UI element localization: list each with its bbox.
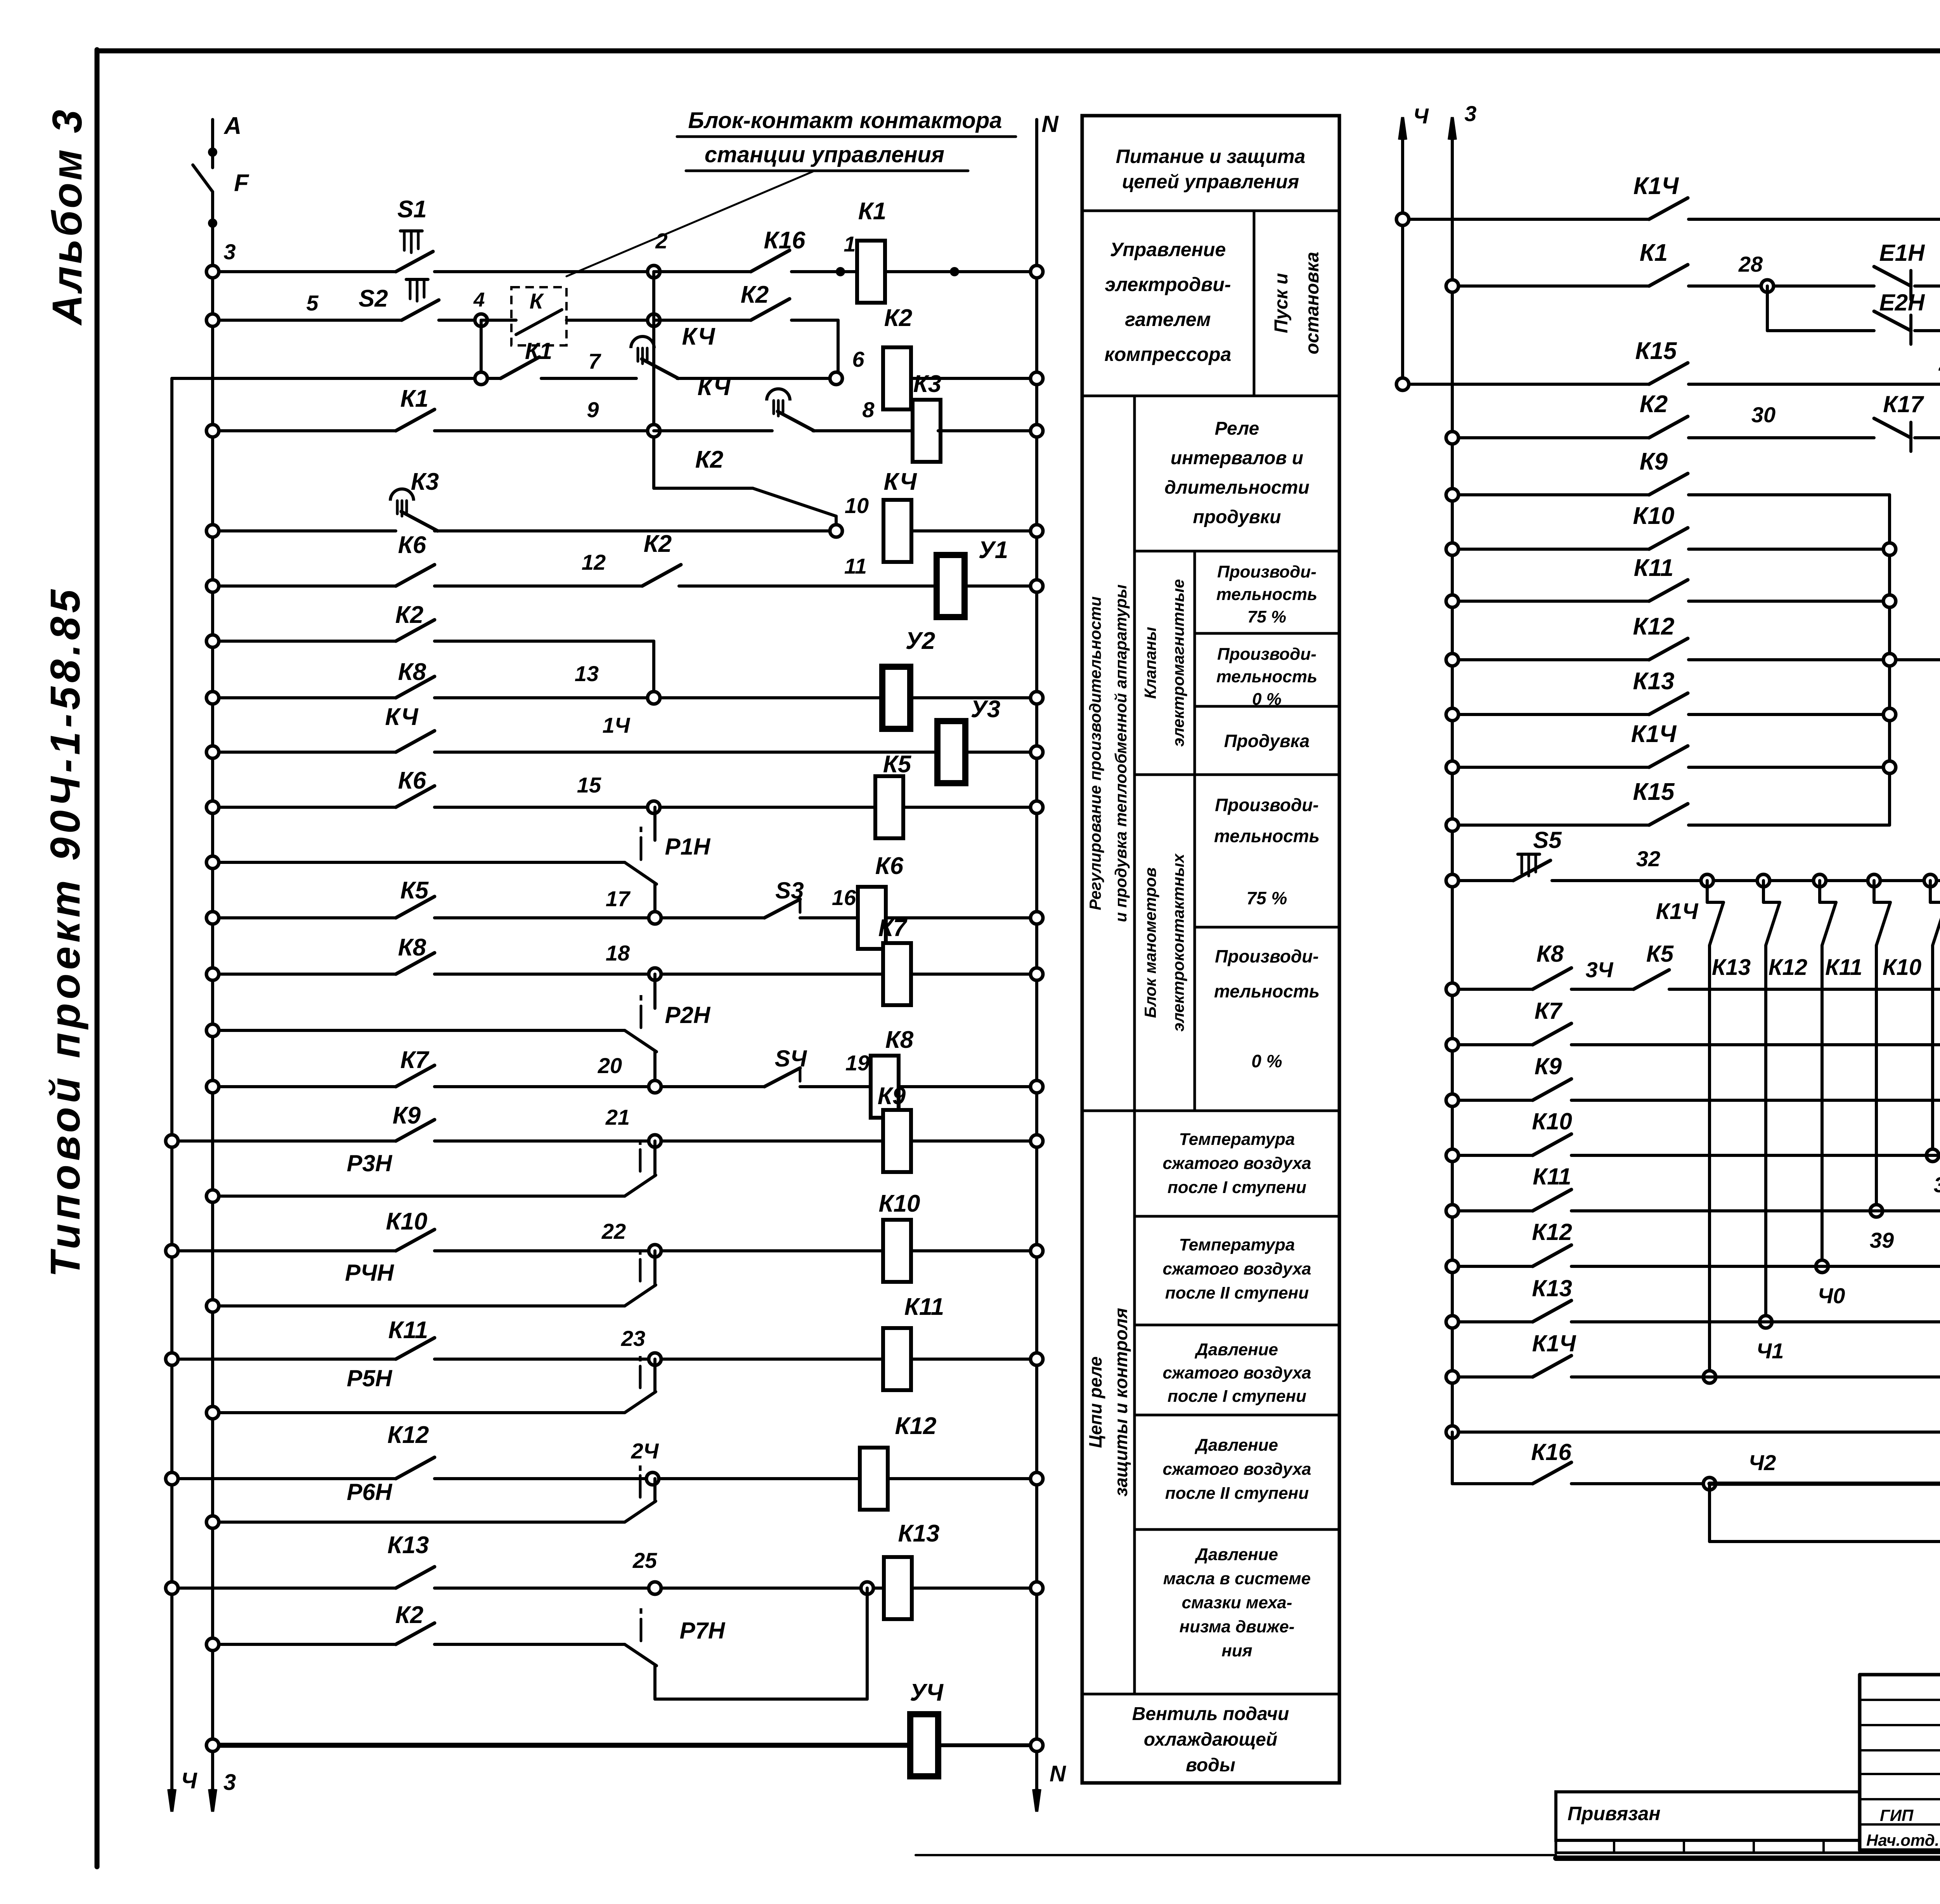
wire Y2 to bus N <box>910 696 1031 699</box>
wire K3 coil to bus N <box>938 429 1031 432</box>
contact К7 rung 35 <box>1533 1023 1571 1045</box>
node on bus 3r K14g <box>1446 761 1458 773</box>
svg-text:S5: S5 <box>1533 827 1562 853</box>
wire rung 21 P5H <box>213 1411 625 1414</box>
svg-text:масла в системе: масла в системе <box>1163 1569 1311 1588</box>
wire test branch 4 upper <box>1872 881 1876 902</box>
node test branch 1 join <box>1703 1371 1716 1383</box>
node on bus 3 rung 26 <box>206 1739 219 1751</box>
contact K10 rung 18 <box>396 1229 435 1251</box>
node bus N rung 24 <box>1031 1582 1043 1594</box>
wire branch to contact K2 <box>654 487 753 490</box>
svg-text:Ч: Ч <box>1413 104 1429 128</box>
svg-text:S2: S2 <box>359 285 388 312</box>
svg-text:4: 4 <box>473 289 485 311</box>
svg-text:К11: К11 <box>1634 555 1673 581</box>
wire test branch 5 lower <box>1931 945 1934 1155</box>
wire P7H loop <box>653 1666 656 1699</box>
svg-text:К8: К8 <box>398 659 426 685</box>
svg-text:смазки меха-: смазки меха- <box>1182 1593 1292 1612</box>
node 6 <box>830 372 842 385</box>
break contact K17 <box>1874 418 1911 438</box>
svg-text:Управление: Управление <box>1110 239 1226 260</box>
contact K15 group <box>1649 804 1688 825</box>
junction node test branch 2 <box>1757 874 1770 887</box>
svg-text:16: 16 <box>832 885 856 910</box>
svg-text:Е2Н: Е2Н <box>1879 290 1925 316</box>
svg-text:39: 39 <box>1870 1228 1894 1252</box>
contact K8 rung 8 <box>396 676 435 698</box>
test lamp contact 4 <box>1876 902 1890 945</box>
svg-text:Вентиль подачи: Вентиль подачи <box>1132 1704 1289 1724</box>
wire rung 39 <box>1452 1265 1533 1268</box>
wire rung K13 group <box>1452 713 1649 716</box>
svg-text:А: А <box>223 113 242 139</box>
wire rung 30 <box>1452 436 1649 439</box>
svg-text:38: 38 <box>1934 1172 1940 1197</box>
svg-text:К1: К1 <box>525 338 552 364</box>
wire rung Ч0 <box>1452 1320 1533 1323</box>
junction dot after K1 coil <box>950 267 959 276</box>
svg-text:КЧ: КЧ <box>883 468 917 495</box>
svg-text:после II ступени: после II ступени <box>1165 1283 1309 1302</box>
contact К13 rung Ч0 <box>1533 1301 1571 1322</box>
node on bus 3 rung 21 <box>206 1406 219 1419</box>
svg-text:Р3Н: Р3Н <box>347 1150 393 1176</box>
title block bottom line <box>1860 1849 1940 1852</box>
svg-text:0 %: 0 % <box>1251 1051 1282 1071</box>
node on bus 3 rung 19 <box>206 1300 219 1312</box>
test lamp contact 3 <box>1822 902 1836 945</box>
svg-text:У3: У3 <box>971 696 1000 723</box>
svg-text:Давление: Давление <box>1194 1340 1278 1359</box>
node 21 <box>649 1135 661 1147</box>
node on bus 4 rung 16 <box>166 1135 178 1147</box>
svg-text:Производи-: Производи- <box>1215 795 1318 815</box>
bus 3 bottom arrow <box>210 1789 216 1812</box>
wire vertical node4 down to rung 7 <box>480 320 483 378</box>
middle table outer border <box>1082 116 1339 1783</box>
pushbutton S1 <box>396 251 433 272</box>
svg-text:К8: К8 <box>1536 941 1564 967</box>
contact K8 rung 13 <box>396 953 435 974</box>
wire P3H up to node 21 <box>653 1141 656 1175</box>
node on bus 3 rung 5 <box>206 525 219 537</box>
svg-text:К3: К3 <box>411 468 439 495</box>
contact K9 group <box>1649 473 1688 495</box>
svg-text:К2: К2 <box>1640 391 1668 418</box>
svg-text:К9: К9 <box>393 1102 421 1129</box>
svg-text:Ч1: Ч1 <box>1756 1339 1784 1363</box>
node on bus 3 rung 25 <box>206 1638 219 1651</box>
svg-text:Давление: Давление <box>1194 1545 1278 1564</box>
relay coil K8 <box>871 1056 899 1118</box>
relay coil K7 <box>883 943 911 1005</box>
node on bus 3r rung 30 <box>1446 432 1458 444</box>
wire rung 38 <box>1452 1209 1533 1212</box>
wire K2 to drop <box>792 319 838 322</box>
svg-text:32: 32 <box>1636 846 1660 871</box>
node bus N rung 5 <box>1031 525 1043 537</box>
wire rung K10 group <box>1452 548 1649 551</box>
svg-text:S3: S3 <box>775 877 804 903</box>
bus 4 right top arrow <box>1400 117 1406 140</box>
contact K2 rung 25 <box>396 1623 435 1644</box>
contact К9 rung 36 <box>1533 1079 1571 1100</box>
contact K13 rung 24 <box>396 1567 435 1588</box>
wire horn branch <box>1708 1484 1711 1542</box>
wire P4H up to node 22 <box>653 1251 656 1285</box>
wire K7 coil to bus N <box>911 973 1031 976</box>
svg-text:7: 7 <box>588 349 601 373</box>
node on bus 3 rung 6 <box>206 580 219 592</box>
node 2 <box>648 265 660 278</box>
svg-text:К8: К8 <box>885 1027 914 1053</box>
svg-text:К5: К5 <box>1646 941 1674 967</box>
svg-text:защиты и контроля: защиты и контроля <box>1111 1308 1131 1496</box>
svg-text:К10: К10 <box>1633 503 1674 529</box>
wire K2 coil to bus N <box>911 377 1031 380</box>
wire rung 33 <box>1452 988 1533 991</box>
svg-text:Р1Н: Р1Н <box>665 834 711 860</box>
svg-text:воды: воды <box>1186 1755 1235 1776</box>
contact K2 rung 30 <box>1649 416 1688 438</box>
contact K16 <box>751 250 790 272</box>
wire rung Ч1 <box>1452 1375 1533 1379</box>
relay coil K2 <box>883 347 911 409</box>
wire rung 8 <box>213 696 396 699</box>
svg-text:К9: К9 <box>1640 448 1668 475</box>
node 18 <box>649 968 661 980</box>
node on bus 3 rung 1 <box>206 265 219 278</box>
svg-text:К1Ч: К1Ч <box>1532 1330 1576 1356</box>
middle table grid <box>1082 210 1339 212</box>
svg-text:13: 13 <box>575 661 599 686</box>
svg-text:Давление: Давление <box>1194 1436 1278 1455</box>
node on bus 3r rung 39 <box>1446 1260 1458 1273</box>
svg-text:К12: К12 <box>1633 613 1674 640</box>
cell text Регулирование производительности и продувка теплообменной аппаратуры <box>1086 584 1130 922</box>
svg-text:К17: К17 <box>1883 391 1924 417</box>
test lamp contact 5 <box>1933 902 1940 945</box>
node bus N rung 20 <box>1031 1353 1043 1365</box>
wire rung 35 <box>1452 1043 1533 1046</box>
wire rung 3 (net 7) <box>172 377 481 380</box>
svg-text:РЧН: РЧН <box>345 1260 395 1286</box>
relay coil K3 <box>913 400 941 462</box>
wire rung K14 group <box>1452 766 1649 769</box>
node 25 <box>649 1582 661 1594</box>
wire K11 coil to bus N <box>911 1358 1031 1361</box>
svg-text:электромагнитные: электромагнитные <box>1169 579 1187 747</box>
wire rung 36 <box>1452 1099 1533 1102</box>
wire rung 26 thick <box>213 1743 910 1748</box>
wire rung 16 <box>172 1139 396 1143</box>
contact K4 rung 9 <box>396 731 435 752</box>
svg-text:К5: К5 <box>883 751 912 778</box>
wire test branch 3 lower <box>1820 945 1824 1266</box>
wire rung 5 <box>213 529 396 532</box>
contact K12 group <box>1649 638 1688 660</box>
bus A (left vertical supply, net 3) <box>211 120 214 168</box>
svg-text:25: 25 <box>632 1548 657 1573</box>
node bus N rung 12 <box>1031 912 1043 924</box>
svg-text:К2: К2 <box>644 531 672 557</box>
contact K1 rung 3 <box>501 357 539 378</box>
node on bus 3r rung Ч0 <box>1446 1316 1458 1328</box>
vertical node18 to P2H <box>653 974 656 1008</box>
pressure contact P7H <box>625 1644 656 1666</box>
svg-text:сжатого воздуха: сжатого воздуха <box>1162 1154 1311 1173</box>
svg-text:К2: К2 <box>884 305 913 331</box>
svg-text:длительности: длительности <box>1164 477 1309 498</box>
svg-text:К11: К11 <box>388 1317 428 1344</box>
contact K13 group <box>1649 693 1688 714</box>
node on bus 3 rung 8 <box>206 692 219 704</box>
cell text Блок манометров электроконтактных <box>1141 853 1187 1032</box>
svg-text:после I ступени: после I ступени <box>1167 1387 1306 1406</box>
bus N left ladder <box>1035 120 1038 1801</box>
svg-text:10: 10 <box>845 493 869 518</box>
svg-text:ГИП: ГИП <box>1880 1806 1914 1824</box>
cell text Цепи реле защиты и контроля <box>1085 1308 1131 1496</box>
wire rung K9 group <box>1452 493 1649 496</box>
pressure contact P1H <box>625 862 656 884</box>
svg-text:К2: К2 <box>741 281 769 308</box>
bus 4 right <box>1401 128 1404 384</box>
svg-text:гателем: гателем <box>1125 309 1211 330</box>
svg-text:К7: К7 <box>1535 998 1563 1024</box>
pressure contact P4H <box>625 1285 656 1306</box>
node 28 <box>1761 280 1774 292</box>
svg-text:компрессора: компрессора <box>1105 343 1232 365</box>
svg-text:К15: К15 <box>1633 779 1675 805</box>
relay coil K6 <box>858 887 886 949</box>
node on bus 4r rung 29 <box>1396 378 1409 390</box>
wire K4 to node 6 <box>677 377 836 380</box>
wire 42 to resistor thick <box>1710 1482 1940 1486</box>
wire test branch 1 lower <box>1708 945 1711 1377</box>
svg-text:К7: К7 <box>878 915 908 942</box>
wire rung 7 <box>213 640 396 643</box>
valve coil Y4 <box>910 1714 938 1776</box>
wire K1 to K4 rung3 <box>541 377 636 380</box>
svg-text:цепей управления: цепей управления <box>1122 171 1299 192</box>
svg-text:К12: К12 <box>1769 955 1807 980</box>
svg-text:Р2Н: Р2Н <box>665 1002 711 1028</box>
svg-text:К1: К1 <box>1640 239 1668 266</box>
svg-text:Р7Н: Р7Н <box>680 1618 726 1644</box>
svg-text:К12: К12 <box>387 1422 429 1448</box>
node on bus 3r rung H9 <box>1446 1426 1458 1438</box>
node test branch 3 join <box>1816 1260 1828 1273</box>
wire test branch 2 lower <box>1764 945 1767 1322</box>
contact K5 rung 12 <box>396 897 435 918</box>
wire test branch 5 upper <box>1929 881 1932 902</box>
wire rung 10 <box>213 806 396 809</box>
cell text Пуск и остановка <box>1271 252 1323 354</box>
svg-text:28: 28 <box>1738 252 1763 276</box>
wire branch down to node 10 <box>835 516 838 531</box>
node on bus 3r K12g <box>1446 654 1458 666</box>
svg-text:электроконтактных: электроконтактных <box>1169 853 1187 1032</box>
svg-text:75 %: 75 % <box>1247 888 1287 908</box>
svg-text:К2: К2 <box>695 446 724 473</box>
node on bus 3 rung 2 <box>206 314 219 326</box>
wire Y1 to bus N <box>965 584 1031 588</box>
contact K2 rung 6 <box>642 565 681 586</box>
relay coil K5 <box>875 776 903 838</box>
pushbutton S2 <box>402 300 439 320</box>
node on bus 3r rung 28 <box>1446 280 1458 292</box>
node rung 4 at x1685 <box>648 425 660 437</box>
node on bus 3r rung 37 <box>1446 1149 1458 1162</box>
relay coil K9 <box>883 1110 911 1172</box>
node on bus 3r K10g <box>1446 543 1458 555</box>
svg-text:Продувка: Продувка <box>1224 731 1310 751</box>
wire box K to vertical node <box>566 319 654 322</box>
svg-text:1: 1 <box>844 232 856 256</box>
svg-text:18: 18 <box>606 941 630 965</box>
svg-text:6: 6 <box>852 347 864 371</box>
node on bus 3 rung 23 <box>206 1516 219 1528</box>
svg-text:5: 5 <box>306 291 319 315</box>
svg-text:Р6Н: Р6Н <box>347 1479 393 1505</box>
svg-text:тельность: тельность <box>1214 981 1320 1001</box>
contact K14 group <box>1649 746 1688 767</box>
svg-text:3: 3 <box>1464 101 1476 126</box>
wire K16 to coil K1 <box>792 270 857 273</box>
svg-text:N: N <box>1041 111 1059 137</box>
wire K10 coil to bus N <box>911 1249 1031 1252</box>
svg-text:К5: К5 <box>400 877 429 904</box>
wire rung 11 P1H <box>213 861 625 864</box>
svg-text:остановка: остановка <box>1302 252 1323 354</box>
contact K12 rung 22 <box>396 1457 435 1479</box>
svg-text:Цепи реле: Цепи реле <box>1085 1356 1105 1448</box>
break contact K3 <box>401 512 438 531</box>
pressure contact P6H <box>625 1501 656 1522</box>
node on bus 3r rung 33 <box>1446 983 1458 995</box>
contact К11 rung 38 <box>1533 1190 1571 1211</box>
svg-text:низма движе-: низма движе- <box>1180 1617 1295 1636</box>
svg-text:К11: К11 <box>1825 955 1862 980</box>
contact K2 branch <box>753 488 836 516</box>
node K11g join <box>1883 595 1896 607</box>
svg-text:Ч: Ч <box>181 1768 197 1793</box>
svg-text:Блок манометров: Блок манометров <box>1141 867 1159 1018</box>
svg-text:К13: К13 <box>387 1532 429 1559</box>
svg-text:ния: ния <box>1221 1641 1252 1660</box>
contact K11 group <box>1649 580 1688 601</box>
svg-text:К13: К13 <box>1712 955 1751 980</box>
node 22 <box>649 1245 661 1257</box>
svg-text:Блок-контакт контактора: Блок-контакт контактора <box>688 108 1002 133</box>
node bus N rung 22 <box>1031 1472 1043 1485</box>
wire rung 12 <box>213 916 396 919</box>
node on bus 4 rung 18 <box>166 1245 178 1257</box>
junction node test branch 4 <box>1868 874 1880 887</box>
svg-text:К16: К16 <box>764 227 805 254</box>
svg-text:20: 20 <box>598 1053 622 1078</box>
contact K9 rung 16 <box>396 1120 435 1141</box>
svg-text:К2: К2 <box>395 1602 424 1628</box>
node on bus 3r K15g <box>1446 819 1458 831</box>
svg-text:SЧ: SЧ <box>775 1046 807 1072</box>
wire node4 to box K <box>481 319 516 322</box>
node on bus 3r K13g <box>1446 708 1458 721</box>
wire Y4 to bus N <box>938 1743 1031 1747</box>
wire P5H up to node 23 <box>653 1359 656 1392</box>
test lamp contact 1 <box>1710 902 1723 945</box>
svg-text:У1: У1 <box>979 537 1008 564</box>
junction node test branch 3 <box>1814 874 1826 887</box>
contact К1Ч rung Ч1 <box>1533 1356 1571 1377</box>
bus 3 right top arrow <box>1449 117 1455 140</box>
wire rung 2 (net 5) <box>213 319 402 322</box>
svg-text:Типовой проект 90Ч-1-58.85: Типовой проект 90Ч-1-58.85 <box>42 586 88 1277</box>
svg-text:после I ступени: после I ступени <box>1167 1178 1306 1197</box>
svg-text:КЧ: КЧ <box>697 374 731 401</box>
node on bus 4 rung 20 <box>166 1353 178 1365</box>
wire common vertical (net 31 group) <box>1888 495 1891 825</box>
relay coil K4 <box>883 500 911 562</box>
dash row under Привязан <box>1555 1840 1557 1853</box>
svg-text:К9: К9 <box>1535 1053 1562 1079</box>
svg-text:К16: К16 <box>1531 1439 1571 1465</box>
wire rung 42 start <box>1451 1432 1454 1484</box>
svg-text:Температура: Температура <box>1179 1130 1295 1149</box>
wire P2H down to node 20 <box>653 1052 656 1087</box>
contact K1 rung 4 <box>396 409 435 431</box>
svg-text:К3: К3 <box>913 371 942 397</box>
svg-text:8: 8 <box>862 397 875 422</box>
fuse-switch F <box>193 165 213 192</box>
svg-text:Производи-: Производи- <box>1217 562 1316 581</box>
node on bus 3r rung Ч1 <box>1446 1371 1458 1383</box>
svg-text:Реле: Реле <box>1215 418 1259 439</box>
svg-text:21: 21 <box>605 1105 630 1129</box>
wire rung K12 group net 31 <box>1452 658 1649 661</box>
contact K6 rung 10 <box>396 786 435 807</box>
svg-text:К10: К10 <box>386 1208 427 1235</box>
node on bus 3r rung 35 <box>1446 1039 1458 1051</box>
node on bus 3 rung 7 <box>206 635 219 647</box>
wire rung 23 P6H <box>213 1521 625 1524</box>
svg-text:29: 29 <box>1938 351 1940 375</box>
svg-text:Питание и защита: Питание и защита <box>1116 146 1306 167</box>
svg-text:Нач.отд.: Нач.отд. <box>1866 1831 1939 1849</box>
wire to contact K2 rung2 <box>654 319 751 322</box>
svg-text:К13: К13 <box>898 1520 939 1547</box>
wire rung 15 <box>213 1085 396 1088</box>
node 13 <box>648 692 660 704</box>
wire rung 24 <box>172 1587 396 1590</box>
wire rung H9 <box>1452 1431 1940 1434</box>
wire rung 25 <box>213 1643 396 1646</box>
svg-text:продувки: продувки <box>1193 507 1281 527</box>
svg-text:Ч2: Ч2 <box>1749 1450 1776 1475</box>
junction on bus A <box>208 147 217 157</box>
node bus N rung 8 <box>1031 692 1043 704</box>
svg-text:75 %: 75 % <box>1247 607 1286 626</box>
node on bus 3r rung 36 <box>1446 1094 1458 1106</box>
wire drop to node 6 <box>837 320 840 378</box>
wire rung 28 <box>1452 284 1649 288</box>
contact K15 rung 29 <box>1649 363 1688 384</box>
svg-text:К7: К7 <box>400 1047 430 1073</box>
junction dot before K1 coil <box>836 267 845 276</box>
